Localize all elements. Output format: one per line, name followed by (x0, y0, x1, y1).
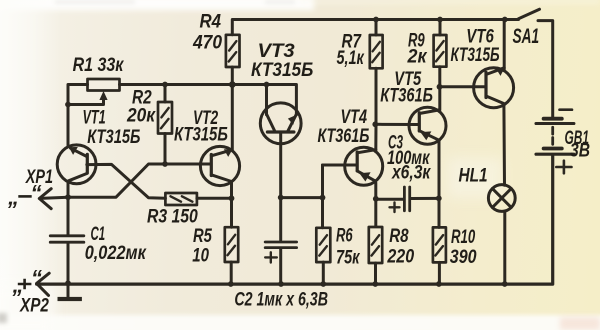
svg-text:“: “ (31, 181, 42, 206)
svg-text:R4: R4 (200, 11, 222, 32)
svg-text:3В: 3В (570, 139, 590, 161)
svg-text:КТ315Б: КТ315Б (174, 124, 228, 145)
svg-text:R5: R5 (193, 225, 212, 246)
svg-text:КТ315Б: КТ315Б (87, 126, 140, 147)
svg-text:R3 150: R3 150 (147, 205, 198, 227)
svg-text:75к: 75к (336, 247, 361, 268)
svg-text:220: 220 (386, 245, 414, 267)
svg-text:ХР2: ХР2 (19, 294, 49, 316)
svg-text:R10: R10 (451, 227, 475, 248)
svg-text:0,022мк: 0,022мк (85, 242, 147, 263)
svg-text:С2 1мк х 6,3В: С2 1мк х 6,3В (234, 289, 328, 311)
svg-text:R1 33к: R1 33к (73, 54, 125, 76)
svg-text:2к: 2к (407, 45, 429, 67)
svg-text:КТ315Б: КТ315Б (251, 59, 314, 80)
svg-text:5,1к: 5,1к (337, 47, 366, 68)
svg-text:R6: R6 (336, 225, 353, 246)
svg-text:390: 390 (450, 246, 477, 268)
svg-text:470: 470 (192, 32, 222, 53)
svg-text:VT1: VT1 (83, 107, 106, 128)
svg-text:R8: R8 (389, 225, 409, 247)
svg-text:20к: 20к (126, 105, 156, 126)
svg-text:х6,3к: х6,3к (391, 161, 431, 183)
svg-text:“: “ (31, 266, 42, 291)
svg-text:КТ315Б: КТ315Б (451, 44, 500, 66)
svg-text:КТ361Б: КТ361Б (380, 85, 433, 106)
svg-text:10: 10 (192, 245, 209, 266)
svg-text:HL1: HL1 (459, 164, 488, 186)
svg-text:SA1: SA1 (513, 24, 540, 48)
svg-text:„: „ (7, 185, 19, 210)
svg-text:КТ361Б: КТ361Б (318, 125, 370, 146)
